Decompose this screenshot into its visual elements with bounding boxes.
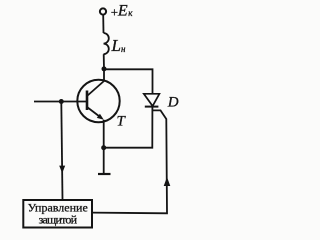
svg-text:T: T — [117, 114, 127, 130]
wire emitter node to thyristor cathode — [104, 108, 153, 148]
transistor Q1 emitter arrowhead — [97, 114, 104, 120]
node emitter junction — [101, 145, 106, 150]
ground bar — [98, 173, 111, 175]
inductor L1 — [104, 33, 109, 54]
svg-text:D: D — [167, 94, 179, 110]
svg-text:к: к — [128, 8, 133, 18]
transistor Q1 base bar — [86, 91, 89, 111]
wire emitter down — [103, 120, 105, 174]
svg-text:L: L — [111, 36, 121, 55]
wire collector lead — [103, 69, 105, 81]
svg-text:защитой: защитой — [39, 212, 78, 226]
wire base lead — [34, 101, 87, 103]
thyristor D gate lead — [92, 110, 167, 213]
svg-text:E: E — [117, 3, 128, 20]
control box — [23, 200, 92, 228]
node base junction — [59, 99, 64, 104]
wire base node to control box — [61, 102, 62, 200]
transistor Q1 collector stroke — [87, 81, 104, 96]
transistor Q1 circle — [77, 80, 119, 122]
wire terminal to inductor — [102, 15, 104, 33]
thyristor D triangle — [144, 94, 160, 106]
arrow down into control box — [59, 166, 65, 174]
transistor Q1 emitter stroke — [87, 107, 101, 118]
node collector junction — [102, 66, 107, 71]
wire node to thyristor anode — [104, 69, 153, 94]
thyristor D cathode bar — [145, 106, 159, 108]
svg-text:н: н — [121, 44, 126, 54]
wire inductor to collector node — [103, 54, 105, 69]
terminal +Ek — [100, 8, 106, 14]
arrow up into gate — [164, 177, 171, 186]
